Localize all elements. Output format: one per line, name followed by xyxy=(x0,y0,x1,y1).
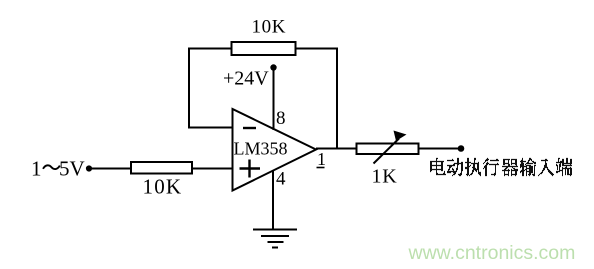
resistor R1 (input 10K) xyxy=(131,162,192,174)
ground xyxy=(253,230,297,248)
op-amp non-inverting input plus sign xyxy=(240,160,261,178)
wire R1 to op-amp non-inverting input xyxy=(192,168,232,170)
wire op-amp output to RP1 xyxy=(316,148,357,150)
node IN: input terminal dot xyxy=(86,165,92,171)
wire input terminal to R1 xyxy=(91,168,132,170)
svg-text:4: 4 xyxy=(276,169,286,190)
svg-text:10K: 10K xyxy=(143,175,183,199)
label (Chinese): electric actuator input terminal xyxy=(430,159,572,176)
wire +24V to pin 8 xyxy=(273,68,275,130)
resistor R2 (feedback 10K) xyxy=(232,42,296,55)
op-amp inverting input minus sign xyxy=(243,127,256,129)
wire feedback: inverting input, left vertical, top horizontal xyxy=(189,49,233,128)
svg-text:10K: 10K xyxy=(252,17,287,38)
potentiometer RP1 body xyxy=(357,144,419,155)
wire pin 4 to ground xyxy=(272,170,274,230)
svg-text:1K: 1K xyxy=(372,166,398,188)
svg-text:www.cntronics.com: www.cntronics.com xyxy=(408,242,576,264)
wire RP1 to output terminal xyxy=(419,148,460,150)
svg-text:8: 8 xyxy=(276,108,286,129)
svg-text:+24V: +24V xyxy=(223,68,269,90)
potentiometer RP1 arrow xyxy=(374,139,400,164)
op-amp U1 LM358 triangle xyxy=(233,109,317,191)
svg-text:LM358: LM358 xyxy=(234,139,288,159)
node OUT: output terminal dot xyxy=(458,145,465,152)
svg-text:1: 1 xyxy=(31,157,42,181)
wire R2 to output node: top right horizontal and right vertical xyxy=(296,49,338,149)
node +24V supply dot xyxy=(270,64,276,70)
svg-text:1: 1 xyxy=(317,149,326,169)
svg-text:5V: 5V xyxy=(59,157,85,181)
